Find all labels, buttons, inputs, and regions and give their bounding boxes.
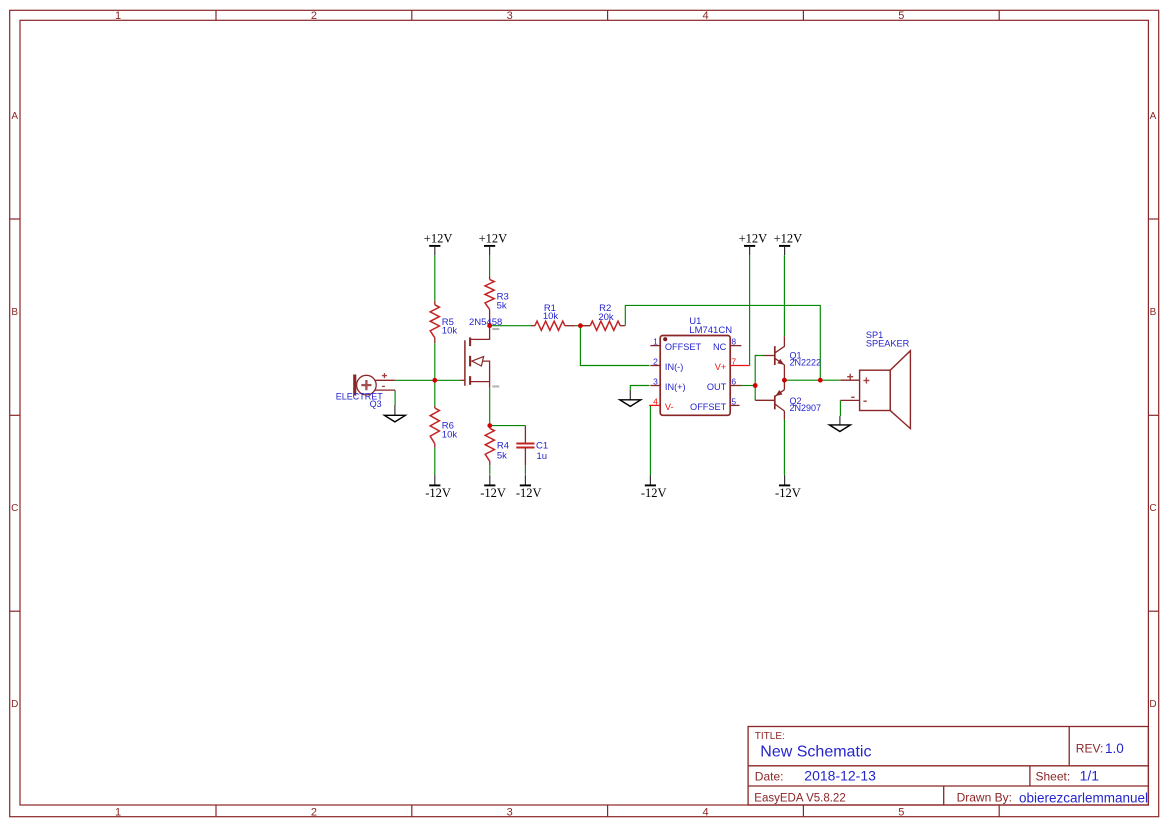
resistor R5 10k: [430, 301, 457, 343]
power flag -12V (Q2): [775, 475, 801, 500]
wire node C to IN(-): [580, 326, 649, 366]
power flag -12V (C1): [516, 475, 542, 500]
wire IN(+) to ground: [630, 386, 649, 390]
ground (IN+): [620, 390, 641, 407]
svg-text:IN(-): IN(-): [665, 362, 683, 372]
pin 6 OUT: [730, 385, 741, 387]
speaker SP1: [840, 330, 910, 428]
pin 3 IN(+): [650, 385, 660, 387]
svg-text:B: B: [11, 307, 18, 318]
svg-text:Q3: Q3: [370, 399, 382, 409]
wire node A to R6: [434, 380, 436, 406]
svg-text:10k: 10k: [442, 430, 458, 441]
wire R2 feedback to output node: [625, 305, 820, 380]
wire R6 to -12V: [434, 448, 436, 475]
svg-text:OUT: OUT: [707, 382, 727, 392]
power flag +12V (R5): [424, 232, 453, 256]
svg-text:NC: NC: [713, 342, 727, 352]
pin 7 V+: [730, 365, 749, 367]
svg-text:A: A: [1150, 111, 1157, 122]
svg-text:7: 7: [731, 357, 736, 367]
svg-text:+12V: +12V: [739, 232, 768, 246]
svg-text:2: 2: [311, 806, 317, 818]
svg-text:Sheet:: Sheet:: [1036, 770, 1071, 784]
svg-text:REV:: REV:: [1076, 741, 1104, 755]
svg-text:4: 4: [702, 10, 708, 22]
title block: [748, 727, 1148, 806]
wire R1 to R2 node: [575, 325, 590, 327]
svg-text:EasyEDA V5.8.22: EasyEDA V5.8.22: [754, 792, 845, 804]
ground (mic): [384, 405, 405, 422]
svg-text:C1: C1: [536, 440, 548, 451]
svg-text:2N2222: 2N2222: [790, 357, 822, 367]
svg-text:5: 5: [898, 10, 904, 22]
svg-text:6: 6: [731, 376, 736, 386]
svg-text:OFFSET: OFFSET: [690, 402, 727, 412]
svg-text:10k: 10k: [442, 326, 458, 337]
pin 4 V-: [649, 404, 660, 406]
wire V- to -12V: [649, 405, 651, 475]
node: feedback/speaker junction: [818, 378, 823, 383]
svg-text:+12V: +12V: [774, 232, 803, 246]
pin 8 NC: [730, 345, 741, 347]
resistor R6 10k: [430, 406, 457, 448]
op-amp U1 LM741CN: [649, 316, 749, 416]
svg-text:New Schematic: New Schematic: [760, 743, 871, 760]
svg-text:1.0: 1.0: [1105, 741, 1124, 756]
transistor JFET 2N5458: [461, 317, 503, 388]
svg-text:2: 2: [653, 357, 658, 367]
wire R4 bottom: [489, 465, 491, 474]
svg-text:20k: 20k: [598, 312, 614, 323]
svg-text:4: 4: [653, 396, 658, 406]
svg-text:5: 5: [898, 806, 904, 818]
svg-text:LM741CN: LM741CN: [689, 325, 732, 336]
wire Q2 collector to -12V: [783, 420, 785, 476]
node: mic/R5/R6/gate junction: [432, 378, 437, 383]
svg-text:D: D: [1149, 699, 1156, 710]
svg-text:2: 2: [311, 10, 317, 22]
svg-text:obierezcarlemmanuel: obierezcarlemmanuel: [1019, 790, 1148, 805]
svg-text:3: 3: [507, 806, 513, 818]
transistor Q2 2N2907 (PNP): [755, 380, 821, 419]
resistor R1 10k: [531, 303, 575, 330]
wire OUT to base link: [741, 385, 755, 387]
svg-text:1: 1: [115, 10, 121, 22]
svg-text:5k: 5k: [497, 301, 507, 312]
svg-text:C: C: [1149, 503, 1156, 514]
pin 5 OFFSET: [730, 404, 739, 406]
wire R5 to node A: [434, 343, 436, 380]
svg-text:C: C: [11, 503, 18, 514]
power flag +12V (op-amp V+): [739, 232, 768, 256]
node: Q1/Q2 emitter output junction: [782, 378, 787, 383]
wire mic- down: [394, 390, 396, 405]
svg-text:V+: V+: [715, 362, 727, 372]
wire mic+ to gate node: [395, 379, 461, 381]
power flag +12V (Q1): [774, 232, 803, 256]
wire C1 bottom: [524, 465, 526, 474]
wire +12V to Q1 collector: [783, 255, 785, 336]
svg-text:1: 1: [115, 806, 121, 818]
power flag -12V (R6): [425, 475, 451, 500]
ground (speaker): [829, 416, 850, 431]
power flag -12V (op-amp V-): [641, 475, 667, 500]
svg-text:SPEAKER: SPEAKER: [866, 339, 910, 349]
svg-text:4: 4: [702, 806, 708, 818]
wire drain node to R1: [490, 325, 531, 327]
svg-text:TITLE:: TITLE:: [755, 731, 785, 742]
wire source to node B: [489, 388, 491, 426]
wire speaker minus to ground: [839, 400, 841, 416]
svg-text:1u: 1u: [537, 451, 548, 462]
pin 1 OFFSET: [650, 345, 660, 347]
svg-text:-12V: -12V: [516, 486, 542, 500]
svg-text:IN(+): IN(+): [665, 382, 686, 392]
svg-text:-12V: -12V: [480, 486, 506, 500]
node: source/R4/C1 junction: [487, 423, 492, 428]
pin 2 IN(-): [650, 365, 660, 367]
resistor R4 5k: [485, 426, 509, 466]
svg-text:+12V: +12V: [479, 232, 508, 246]
resistor R3 5k: [485, 277, 509, 326]
svg-text:1: 1: [653, 337, 658, 347]
transistor Q1 2N2222 (NPN): [765, 336, 822, 380]
svg-text:Date:: Date:: [755, 770, 784, 784]
power flag +12V (R3): [479, 232, 508, 256]
wire output node to speaker: [784, 379, 840, 381]
svg-text:3: 3: [653, 376, 658, 386]
svg-text:Drawn By:: Drawn By:: [957, 790, 1012, 804]
wire +12V to V+: [749, 255, 751, 365]
svg-text:2N5458: 2N5458: [469, 317, 502, 328]
electret microphone Q3: [336, 373, 395, 409]
svg-text:B: B: [1150, 307, 1157, 318]
wire +12V to R5: [434, 255, 436, 300]
svg-text:V-: V-: [665, 402, 674, 412]
svg-text:-12V: -12V: [425, 486, 451, 500]
svg-text:1/1: 1/1: [1080, 767, 1100, 783]
power flag -12V (R4): [480, 475, 506, 500]
svg-text:8: 8: [731, 337, 736, 347]
node: R1/R2/IN(-) junction: [578, 323, 583, 328]
svg-text:-12V: -12V: [775, 486, 801, 500]
svg-text:10k: 10k: [543, 311, 559, 322]
wire +12V to R3: [489, 255, 491, 276]
svg-text:5: 5: [731, 396, 736, 406]
wire node B to C1: [490, 425, 526, 427]
svg-text:3: 3: [507, 10, 513, 22]
svg-text:OFFSET: OFFSET: [665, 342, 702, 352]
svg-text:5k: 5k: [497, 451, 507, 462]
node: OUT/base link junction: [753, 383, 758, 388]
svg-text:2N2907: 2N2907: [790, 403, 822, 413]
node: drain/R3/R1 junction: [487, 323, 492, 328]
svg-text:-12V: -12V: [641, 486, 667, 500]
wire base link vertical: [755, 356, 764, 401]
svg-text:A: A: [11, 111, 18, 122]
svg-text:+12V: +12V: [424, 232, 453, 246]
svg-text:D: D: [11, 699, 18, 710]
capacitor C1 1u: [516, 426, 548, 466]
resistor R2 20k: [580, 303, 625, 330]
svg-text:2018-12-13: 2018-12-13: [804, 768, 876, 784]
